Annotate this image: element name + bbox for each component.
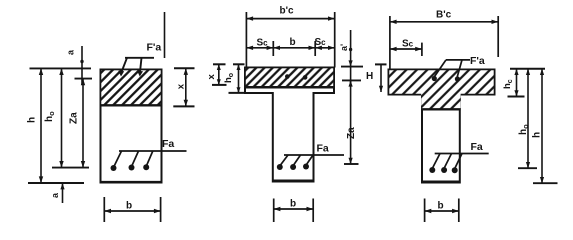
svg-text:Za: Za: [69, 112, 80, 124]
beam outline (left section): [101, 70, 162, 183]
svg-text:a': a': [339, 44, 349, 51]
svg-text:b: b: [126, 201, 132, 212]
svg-text:B'c: B'c: [436, 10, 452, 21]
tension steel dots (middle): [277, 164, 283, 170]
tension steel level extension (left): [52, 167, 89, 169]
beam bottom edge thick (left section): [101, 181, 162, 184]
T-beam outline (right section): [389, 70, 495, 183]
svg-text:Sc: Sc: [257, 38, 269, 49]
dimension h0 (right): [527, 69, 529, 168]
dimension b (middle): [273, 199, 275, 223]
dimension a top (left): [81, 46, 83, 85]
compression steel level tick (left): [75, 78, 93, 80]
svg-text:Fa: Fa: [317, 143, 329, 155]
compression steel dots (right): [432, 76, 437, 81]
tension steel dots (left): [111, 165, 117, 171]
bottom extension line (left): [28, 182, 84, 184]
compression zone bottom edge (right): [421, 108, 460, 110]
svg-text:b: b: [438, 201, 444, 212]
svg-text:a: a: [50, 192, 60, 198]
dimension Sc b Sc (middle): [246, 47, 334, 49]
svg-text:hc: hc: [502, 79, 514, 89]
dimension Sc (right): [390, 48, 422, 50]
svg-text:Fa: Fa: [471, 141, 483, 153]
svg-text:b: b: [290, 199, 296, 210]
compression steel dots (middle): [285, 74, 290, 79]
hatched compression zone (right flange + web): [389, 70, 493, 108]
flange top tick (middle right): [341, 66, 363, 68]
dimension a' (middle right): [350, 30, 352, 83]
svg-text:ho: ho: [223, 73, 235, 83]
top extension line (left): [30, 67, 92, 69]
web bottom edge thick (right): [422, 180, 460, 182]
svg-text:Za: Za: [346, 127, 357, 139]
dimension h (left): [40, 68, 42, 183]
dimension b (left): [103, 197, 105, 222]
leader Fa (middle): [284, 154, 344, 156]
svg-text:x: x: [206, 74, 217, 80]
dimension h0 flange (middle): [233, 63, 245, 65]
svg-text:F'a: F'a: [147, 42, 162, 54]
compression level tick (middle right): [342, 79, 361, 81]
dimension b (right): [424, 199, 426, 223]
svg-text:ho: ho: [44, 111, 56, 122]
dimension x (left): [174, 67, 195, 69]
leader Fa (left): [119, 150, 187, 152]
dimension a bottom (left): [62, 183, 64, 203]
top tick row (right dims): [510, 68, 545, 70]
svg-text:a: a: [66, 49, 76, 55]
svg-text:Fa: Fa: [162, 138, 174, 150]
dimension B'c (right): [389, 16, 391, 70]
svg-text:ho: ho: [518, 124, 530, 135]
dimension Za (middle): [350, 80, 352, 164]
web bottom edge thick (middle): [273, 179, 314, 181]
compression zone bottom edge (middle): [245, 86, 334, 89]
compression zone bottom edge (left section): [101, 104, 162, 106]
dimension h (right): [541, 69, 543, 183]
leader F'a (left): [125, 57, 154, 59]
tension steel dots (right): [429, 167, 435, 173]
dimension h0 (left): [61, 68, 63, 167]
svg-text:h: h: [532, 132, 543, 138]
svg-text:Sc: Sc: [315, 37, 327, 48]
dimension H (middle): [375, 63, 387, 65]
stray vertical line beside F'a (left): [164, 12, 166, 58]
svg-text:h: h: [27, 117, 38, 123]
hatched compression zone (left section): [101, 70, 160, 105]
dimension hc (right): [516, 69, 518, 97]
hatched compression zone (middle flange): [246, 68, 333, 87]
dimension Za (left): [82, 79, 84, 168]
leader Fa (right): [435, 153, 489, 155]
svg-text:x: x: [175, 83, 186, 89]
T-beam outline (middle section): [245, 68, 334, 182]
svg-text:b: b: [290, 37, 296, 48]
leader F'a (right): [446, 59, 470, 61]
svg-text:b'c: b'c: [280, 6, 294, 17]
svg-text:Sc: Sc: [402, 39, 414, 50]
svg-text:H: H: [366, 71, 373, 82]
dimension x (middle): [213, 63, 226, 65]
dimension b'c (middle): [245, 12, 247, 68]
svg-text:F'a: F'a: [470, 55, 485, 67]
